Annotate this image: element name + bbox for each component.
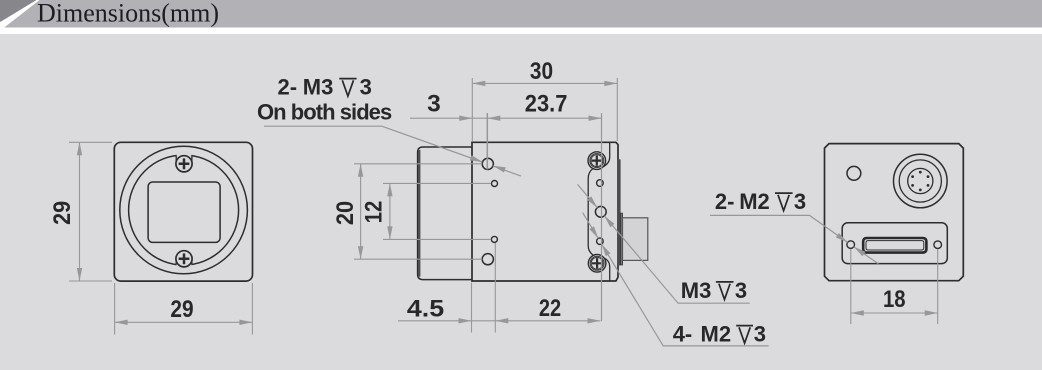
front 29 left dim line <box>79 142 81 281</box>
label D overshoot segment <box>854 247 879 264</box>
svg-text:4-: 4- <box>673 322 693 347</box>
arrow to side big hole (from label A) <box>470 155 483 162</box>
label C depth symbol <box>736 326 753 344</box>
left column big hole bottom <box>482 254 493 265</box>
right column middle hole <box>595 206 606 217</box>
side 23.7 left ext line <box>486 113 488 170</box>
label A depth symbol <box>339 79 356 97</box>
svg-text:29: 29 <box>49 201 76 225</box>
svg-text:M2: M2 <box>701 322 732 347</box>
label D depth symbol <box>775 193 793 211</box>
label B (M3) underline + leader <box>604 216 749 303</box>
svg-text:3: 3 <box>427 91 441 118</box>
label C (4-M2) underline + leader <box>602 244 769 346</box>
right column small hole lower <box>597 238 604 245</box>
leader arrowheads <box>470 155 866 256</box>
label B depth symbol <box>716 282 734 300</box>
lens mount outer circle <box>120 146 248 274</box>
svg-text:2-: 2- <box>715 189 735 214</box>
svg-text:M3: M3 <box>681 278 712 303</box>
side bottom screw S4 <box>588 254 606 272</box>
side right column long ext line <box>601 113 603 321</box>
right column ext line over screws <box>601 113 603 321</box>
right column small hole upper <box>597 180 604 187</box>
side 4.5 left ext line <box>471 283 473 333</box>
svg-text:2-: 2- <box>278 75 298 100</box>
side 30 ext lines <box>472 78 617 141</box>
svg-text:12: 12 <box>361 201 388 224</box>
lens mount block <box>418 147 472 280</box>
connector mounting strip <box>621 213 623 265</box>
back 18 arrows <box>851 310 864 315</box>
label B overshoot segment <box>578 184 598 207</box>
arrowheads for dimensions <box>77 81 938 325</box>
side body outline <box>472 142 618 281</box>
front 29 left ext lines <box>69 142 112 281</box>
arrows to lower small hole (label C) <box>602 244 611 256</box>
svg-text:M2: M2 <box>739 189 770 214</box>
svg-text:29: 29 <box>170 296 193 323</box>
front 29 bottom arrows <box>115 320 128 325</box>
right face shading band <box>617 159 620 265</box>
side 3 / 23.7 dim line <box>410 117 602 119</box>
side 12 dim line <box>389 183 391 239</box>
svg-text:20: 20 <box>332 201 359 225</box>
logo white stripe <box>0 0 40 28</box>
hirose pins <box>911 171 929 192</box>
header bar <box>0 0 1042 28</box>
IO connector recess <box>842 223 947 264</box>
back 18 ext lines <box>851 249 938 324</box>
label A overshoot segment <box>493 166 521 176</box>
top screw S1 <box>176 156 192 172</box>
side 20 dim line <box>360 164 362 259</box>
side 4.5 right ext line <box>494 243 496 333</box>
svg-text:4.5: 4.5 <box>407 295 444 322</box>
back body square with chamfered corners <box>825 144 964 281</box>
top screw notch <box>177 151 192 164</box>
front 29 bottom dim line <box>115 321 253 323</box>
bottom screw notch <box>177 259 192 272</box>
svg-text:18: 18 <box>883 286 906 313</box>
sensor window rect <box>148 182 220 242</box>
svg-text:3: 3 <box>360 75 372 100</box>
back right M2 hole <box>934 241 942 249</box>
logo dark square <box>0 0 37 22</box>
groove outline around right screws <box>588 142 610 281</box>
svg-text:M3: M3 <box>303 75 334 100</box>
side 12 arrows <box>387 183 392 196</box>
connector block <box>623 218 648 261</box>
side 20 arrows <box>358 164 363 177</box>
svg-text:22: 22 <box>539 295 561 322</box>
arrows to middle hole (label B) <box>604 216 614 227</box>
side 22 arrows <box>495 318 508 323</box>
front 29 left arrows <box>77 142 82 155</box>
svg-text:30: 30 <box>530 58 553 85</box>
left column big hole top <box>482 158 493 169</box>
side 12 ext lines <box>383 183 491 239</box>
svg-text:On both sides: On both sides <box>257 100 392 125</box>
side 23.7 arrows <box>487 116 500 121</box>
svg-text:Dimensions(mm): Dimensions(mm) <box>37 0 219 28</box>
svg-text:3: 3 <box>735 278 747 303</box>
back 18 dim line <box>851 312 938 314</box>
side 30 dim line <box>472 82 617 84</box>
side top screw S3 <box>588 152 606 170</box>
label D (2-M2) underline + leader <box>710 215 848 242</box>
hirose connector middle ring <box>899 160 941 202</box>
side 30 arrows <box>472 81 485 86</box>
back left M2 hole <box>847 241 855 249</box>
hirose connector inner ring <box>908 168 933 193</box>
svg-text:3: 3 <box>754 322 766 347</box>
LED indicator <box>847 166 861 180</box>
arrows to back left hole (label D) <box>836 233 848 242</box>
label A underline + leader <box>264 126 482 162</box>
header white gap <box>0 27 1042 34</box>
IO connector inner line <box>866 241 924 250</box>
lens mount left shading <box>418 150 420 277</box>
side 4.5 / 22 dim line <box>398 320 601 322</box>
lens mount inner circle <box>129 155 239 265</box>
IO connector outer <box>863 238 926 253</box>
label C overshoot segment <box>583 213 599 239</box>
left column small hole upper <box>492 181 498 187</box>
svg-text:3: 3 <box>794 189 806 214</box>
left column small hole lower <box>491 236 497 242</box>
side 3 arrow (outside, pointing right) <box>459 116 472 121</box>
front 29 bottom ext lines <box>115 283 253 335</box>
svg-text:23.7: 23.7 <box>525 91 568 118</box>
side 4.5 arrow (outside, pointing right) <box>459 318 472 323</box>
bottom screw S2 <box>176 251 192 267</box>
front body square <box>114 142 252 281</box>
hirose connector outer <box>894 154 948 208</box>
side 20 ext lines <box>354 164 482 259</box>
